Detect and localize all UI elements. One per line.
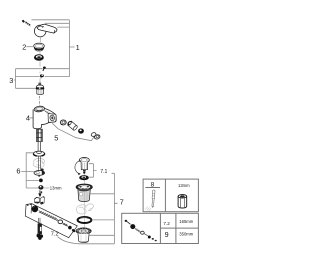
center axis upper (39, 52, 41, 83)
nut ring with 13mm note (38, 185, 43, 189)
svg-text:5: 5 (54, 133, 58, 142)
handle screw (22, 20, 31, 27)
drain body (76, 184, 92, 202)
bracket 6 (21, 152, 39, 188)
dark seal ring (78, 128, 84, 133)
svg-text:7: 7 (120, 198, 124, 207)
horseshoe gasket (grey) (33, 158, 45, 167)
clamp ball (39, 179, 43, 183)
small o-ring (60, 120, 66, 125)
socket icon (178, 195, 187, 208)
O-ring (78, 217, 92, 223)
lever bar housing (25, 204, 77, 238)
small screw dot (41, 191, 43, 193)
svg-text:6: 6 (16, 167, 20, 176)
cartridge (part 3) (36, 82, 44, 95)
bracket 7.1 (89, 164, 97, 178)
mounting flange lower (34, 168, 45, 176)
pop-up stopper (7.1) (79, 157, 89, 173)
pull rod mid (38, 156, 40, 171)
aerator cylinder (67, 120, 78, 131)
bracket 5 (52, 123, 94, 141)
threaded shank below body (37, 129, 43, 141)
dash-dot axis line (39, 96, 41, 105)
stopper seal ring (79, 175, 89, 180)
svg-text:9: 9 (165, 230, 169, 239)
leader 7.2 to bracket 7 (58, 237, 115, 244)
svg-text:7.2: 7.2 (163, 221, 170, 226)
box 9 (122, 213, 199, 243)
drain stack axis (84, 174, 86, 228)
vertical pull rod lower (37, 218, 44, 240)
cartridge screw (43, 67, 46, 71)
mounting flange upper (part 6) (33, 151, 44, 156)
horizontal pop-up rod (39, 211, 76, 233)
svg-text:3: 3 (9, 76, 13, 85)
rod drawing in box 9 (125, 220, 157, 242)
handle stem axis (39, 37, 41, 43)
svg-text:2: 2 (22, 43, 26, 52)
bracket 1 leader lines (32, 20, 75, 77)
ball joint on bar (32, 206, 39, 213)
13mm leader (44, 187, 50, 189)
bracket 3 (14, 69, 43, 89)
svg-text:1: 1 (76, 43, 80, 52)
svg-text:350mm: 350mm (179, 231, 193, 236)
svg-text:13mm: 13mm (178, 183, 190, 188)
drain gasket (grey) (76, 204, 93, 214)
cap (part 2) (34, 43, 45, 51)
pull rod upper (38, 142, 41, 152)
svg-text:13mm: 13mm (50, 185, 62, 190)
end face screw dots (27, 205, 28, 206)
part 5 group: aerator parts (52, 120, 100, 141)
mounting tool icon (151, 190, 155, 208)
mousseur key (91, 132, 101, 140)
waste fitting (76, 228, 91, 243)
svg-text:165mm: 165mm (179, 219, 193, 224)
dark ring under cap (34, 54, 44, 61)
lever handle (part 1) (34, 24, 57, 37)
bracket 7 (89, 173, 117, 244)
rotate arrow (75, 160, 81, 175)
pivot cylinder on bar (35, 198, 40, 204)
down arrow (38, 190, 41, 197)
cartridge indicator piece (40, 74, 44, 78)
svg-text:7.1: 7.1 (100, 169, 107, 175)
box 8 (143, 179, 198, 212)
pivot plate (40, 196, 44, 204)
faucet body (part 4) (33, 106, 56, 129)
